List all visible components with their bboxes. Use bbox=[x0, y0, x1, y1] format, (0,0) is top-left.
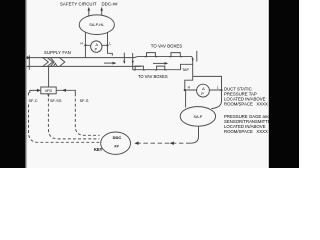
switch SA-P-HL (supply air high limit pressure switch) bbox=[79, 15, 114, 35]
wire to safety circuit with arrow bbox=[88, 7, 91, 16]
wire SF-S from VFD with arrow bbox=[56, 89, 75, 94]
controller DDC ## bbox=[101, 132, 131, 154]
svg-text:TAP: TAP bbox=[182, 68, 189, 72]
right border bar bbox=[269, 0, 299, 168]
wire SF-SS dashed to DDC bbox=[48, 99, 99, 139]
wire L tap hook to duct bbox=[108, 45, 113, 55]
left border bar bbox=[0, 0, 25, 168]
node H2 junction dot bbox=[184, 89, 186, 91]
fan chevron 1 bbox=[43, 58, 53, 67]
note duct static pressure tap bbox=[224, 87, 268, 107]
svg-text:SF-SS: SF-SS bbox=[50, 98, 62, 103]
svg-text:SUPPLY FAN: SUPPLY FAN bbox=[44, 50, 71, 55]
wire H2-L2 manifold bbox=[185, 89, 222, 91]
svg-text:KEY: KEY bbox=[94, 147, 103, 152]
node L2 junction dot bbox=[220, 89, 222, 91]
wire SF-C into VFD with arrow bbox=[30, 89, 41, 93]
wire VAV branch line B bbox=[133, 64, 193, 69]
svg-text:Δ: Δ bbox=[202, 87, 205, 91]
svg-text:SF-S: SF-S bbox=[80, 98, 89, 103]
wire L2 to SA-P transmitter bbox=[212, 90, 222, 109]
note pressure gage and sensor bbox=[224, 114, 274, 134]
svg-text:SAFETY CIRCUIT: SAFETY CIRCUIT bbox=[60, 1, 97, 6]
wire H2 to SA-P transmitter bbox=[185, 90, 187, 108]
duct tap B1 bbox=[134, 66, 146, 70]
svg-text:VFD: VFD bbox=[45, 89, 53, 93]
svg-text:ROOM/SPACE XXXX: ROOM/SPACE XXXX bbox=[224, 102, 268, 107]
wire duct bottom line bbox=[26, 65, 141, 67]
svg-text:TO VAV BOXES: TO VAV BOXES bbox=[138, 74, 168, 79]
drive VFD (variable frequency drive) bbox=[41, 87, 56, 94]
svg-text:TO VAV BOXES: TO VAV BOXES bbox=[151, 44, 182, 49]
riser branch 2 bbox=[132, 53, 134, 70]
wire H-L manifold bbox=[85, 44, 107, 46]
airflow arrow branch B bbox=[153, 62, 168, 65]
svg-text:L: L bbox=[217, 85, 219, 89]
wire manifold to H bbox=[185, 76, 193, 89]
svg-text:DDC: DDC bbox=[113, 135, 122, 140]
wire SA-P-HL to L tap bbox=[107, 33, 109, 46]
wire H tap down to duct bbox=[84, 45, 86, 57]
duct tap A1 bbox=[145, 53, 158, 57]
arrow mid signal bbox=[170, 142, 174, 145]
svg-text:L: L bbox=[109, 42, 111, 46]
svg-text:ROOM/SPACE XXXX: ROOM/SPACE XXXX bbox=[224, 129, 268, 134]
transmitter SA-P bbox=[180, 107, 215, 127]
wire manifold to L bbox=[193, 76, 222, 89]
wire to DDC-## with arrow bbox=[100, 7, 103, 16]
arrow into DDC bbox=[134, 142, 138, 145]
wire duct top line bbox=[26, 56, 193, 58]
duct inlet arrow bbox=[27, 56, 31, 59]
svg-text:##: ## bbox=[114, 144, 119, 149]
sensor dP2 differential pressure sensor bbox=[197, 84, 210, 97]
wire duct to VFD drop bbox=[48, 66, 50, 87]
wire SA-P to DDC dashed bbox=[135, 142, 191, 144]
duct tap B2 bbox=[155, 66, 167, 70]
duct tap A2 bbox=[169, 53, 182, 57]
riser branch 1 bbox=[123, 53, 125, 64]
svg-text:SA-P: SA-P bbox=[193, 115, 202, 119]
wire duct static tap drop bbox=[192, 59, 194, 77]
wire SA-P output stem bbox=[191, 126, 199, 143]
wire SF-SS out of VFD with arrow bbox=[47, 94, 49, 97]
node duct inlet break bbox=[28, 55, 30, 69]
node H junction dot bbox=[84, 44, 86, 46]
svg-text:DDC-##: DDC-## bbox=[101, 1, 118, 6]
svg-text:P: P bbox=[201, 92, 204, 96]
airflow arrow in duct bbox=[104, 62, 116, 65]
duct end break bbox=[196, 51, 198, 62]
svg-text:SF-C: SF-C bbox=[28, 98, 37, 103]
wire SF-C dashed to DDC bbox=[29, 93, 100, 143]
svg-text:SA-P-HL: SA-P-HL bbox=[89, 23, 104, 27]
wire SF-S dashed to DDC bbox=[75, 94, 100, 136]
node L junction dot bbox=[106, 44, 108, 46]
sensor dP1 differential pressure sensor bbox=[91, 41, 102, 52]
fan chevron 2 bbox=[51, 58, 65, 67]
wire SA-P-HL to H tap bbox=[84, 32, 86, 45]
